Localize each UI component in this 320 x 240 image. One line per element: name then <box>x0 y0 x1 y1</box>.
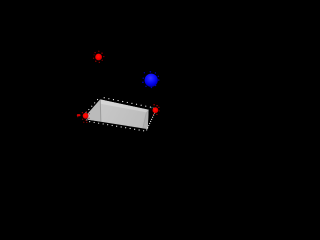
red sphere on box left corner <box>77 111 90 123</box>
red sphere on box right corner <box>151 104 159 115</box>
dotted edge: left lower F-A <box>85 115 88 122</box>
box left end face <box>86 99 101 121</box>
dotted edge: top B-C <box>100 97 153 108</box>
dotted edge: bottom E-F <box>88 121 147 131</box>
box dotted silhouette outline <box>85 97 156 131</box>
speckle halo of right corner sphere <box>153 104 160 115</box>
speckle halo of top red sphere <box>93 51 104 63</box>
dotted edge: left upper A-B <box>85 97 100 115</box>
red sphere top (free particle) <box>93 51 104 63</box>
dotted edge: right top C-D <box>153 108 156 111</box>
blue sphere <box>142 71 159 88</box>
dotted edge: right D-E <box>146 110 156 131</box>
box right end face <box>143 110 149 129</box>
box edge: right fold <box>143 113 147 128</box>
box edge: near vertical edge <box>99 100 102 122</box>
speckle halo of blue sphere <box>142 71 159 88</box>
tiny teal speck <box>151 107 152 108</box>
speckle halo of left corner sphere <box>82 111 90 123</box>
box front face (base silhouette) <box>86 99 149 129</box>
box top face (bright band) <box>100 99 148 112</box>
small red fragment left of corner sphere <box>77 114 81 116</box>
